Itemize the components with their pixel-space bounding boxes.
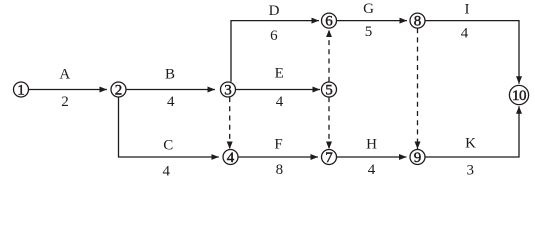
node 9 xyxy=(410,150,425,167)
node 3 xyxy=(221,82,236,99)
node 10 xyxy=(509,85,528,104)
svg-text:9: 9 xyxy=(414,150,422,166)
wire dummy dashed 3 to 4 xyxy=(229,97,231,149)
svg-text:3: 3 xyxy=(467,162,475,178)
svg-text:H: H xyxy=(366,137,377,153)
svg-text:D: D xyxy=(269,3,280,19)
wire activity E (3 to 5) xyxy=(236,89,320,91)
wire activity F (4 to 7) xyxy=(238,156,318,158)
wire activity K (9 to 10), horizontal then vertical up xyxy=(425,106,519,157)
svg-text:4: 4 xyxy=(227,150,235,166)
node 5 xyxy=(322,82,337,99)
wire activity A (1 to 2) xyxy=(29,89,107,91)
svg-text:A: A xyxy=(59,67,70,83)
node 8 xyxy=(410,13,425,30)
svg-text:B: B xyxy=(165,67,175,83)
node 4 xyxy=(223,150,238,167)
wire activity C (2 to 4), vertical then horizontal xyxy=(119,97,219,157)
svg-text:5: 5 xyxy=(365,24,373,40)
svg-text:F: F xyxy=(274,136,282,152)
wire activity G (6 to 8) xyxy=(337,20,407,22)
svg-text:4: 4 xyxy=(368,162,376,178)
svg-text:E: E xyxy=(275,66,284,82)
svg-text:10: 10 xyxy=(512,88,526,104)
wire activity B (2 to 3) xyxy=(127,89,215,91)
node 7 xyxy=(322,150,337,167)
svg-text:2: 2 xyxy=(115,83,123,99)
svg-text:K: K xyxy=(465,136,476,152)
node 6 xyxy=(322,13,337,30)
svg-text:7: 7 xyxy=(325,150,333,166)
svg-text:8: 8 xyxy=(276,162,284,178)
wire dummy dashed 8 to 9 xyxy=(417,28,419,149)
wire activity D (3 to 6), vertical then horizontal xyxy=(231,21,319,82)
svg-text:8: 8 xyxy=(414,14,422,30)
svg-text:4: 4 xyxy=(167,94,175,110)
node 1 xyxy=(14,82,29,99)
wire dummy dashed 5 to 7 xyxy=(328,97,330,149)
svg-text:4: 4 xyxy=(461,26,469,42)
svg-text:6: 6 xyxy=(325,14,333,30)
node 2 xyxy=(111,82,126,99)
svg-text:C: C xyxy=(163,138,173,154)
wire activity I (8 to 10), horizontal then vertical down xyxy=(425,21,519,84)
svg-text:4: 4 xyxy=(276,94,284,110)
svg-text:5: 5 xyxy=(325,83,333,99)
svg-text:2: 2 xyxy=(61,94,69,110)
svg-text:3: 3 xyxy=(224,83,232,99)
wire dummy dashed 5 to 6 xyxy=(328,30,330,82)
svg-text:4: 4 xyxy=(163,164,171,180)
svg-text:G: G xyxy=(363,1,374,17)
wire activity H (7 to 9) xyxy=(337,156,407,158)
svg-text:I: I xyxy=(465,2,470,18)
svg-text:6: 6 xyxy=(270,28,278,44)
svg-text:1: 1 xyxy=(17,83,25,99)
